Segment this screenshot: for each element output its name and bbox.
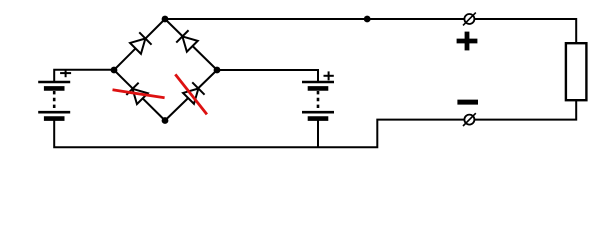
output + polarity label — [457, 32, 478, 51]
red cross-out stroke over diode D4 — [175, 74, 207, 114]
node: bridge bottom node junction dot — [162, 117, 169, 124]
wire battery B2 negative terminal to bottom rail — [317, 120, 319, 147]
red cross-out stroke over diode D3 — [113, 90, 165, 98]
node: bridge right node junction dot — [214, 67, 221, 74]
wire load resistor bottom to negative output terminal and down-step to bottom rail — [54, 100, 576, 147]
wire bridge top node to load resistor top — [165, 19, 576, 43]
battery B2 — [302, 82, 334, 119]
connector J1 (positive output terminal, circle with slash) — [463, 13, 476, 26]
connector J2 (negative output terminal, circle with slash) — [463, 113, 476, 126]
diode D3 (bottom-left bridge arm, conducts bottom node to left node) — [126, 83, 148, 105]
wire bridge arm bottom node to right node — [165, 70, 217, 121]
wire bridge arm left node to top node — [114, 19, 165, 70]
battery B1 + polarity label — [60, 69, 71, 77]
battery B1 — [38, 82, 70, 119]
wire bridge arm left node to bottom node — [114, 70, 165, 121]
diode D2 (top-right bridge arm, conducts right node to top node) — [176, 30, 198, 52]
wire bridge right node to battery B2 positive terminal — [217, 70, 318, 82]
node: bridge left node junction dot — [111, 67, 118, 74]
output - polarity label — [457, 100, 478, 105]
battery B2 + polarity label — [324, 71, 334, 80]
diode D4 (bottom-right bridge arm, conducts bottom node to right node) — [182, 82, 204, 104]
node: bridge top node junction dot — [162, 16, 169, 23]
wire battery B1 positive terminal to bridge left node — [54, 70, 114, 82]
wire bridge arm top node to right node — [165, 19, 217, 70]
diode D1 (top-left bridge arm, conducts left node to top node) — [129, 32, 151, 54]
resistor R1 (load) — [566, 43, 587, 100]
node: junction dot on top wire — [364, 16, 371, 23]
